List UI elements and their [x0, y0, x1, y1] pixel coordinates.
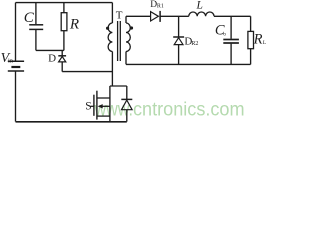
MOSFET body arrow line [102, 105, 110, 107]
wire: transformer primary top lead [111, 3, 113, 23]
MOSFET S channel bar [96, 91, 98, 120]
wire: DR2 top lead [178, 16, 180, 36]
svg-text:R: R [69, 16, 79, 32]
resistor RL (load) [248, 31, 254, 48]
inductor L [189, 12, 214, 16]
svg-text:L: L [196, 0, 203, 11]
svg-text:o: o [223, 31, 226, 37]
wire: clamp resistor top lead [63, 3, 65, 13]
svg-text:C: C [24, 10, 35, 26]
diode DR1 [151, 11, 161, 22]
svg-text:R: R [253, 31, 263, 47]
wire: battery bottom lead [15, 71, 17, 121]
dot primary polarity [106, 27, 109, 30]
svg-text:in: in [8, 57, 14, 64]
svg-text:R1: R1 [157, 3, 164, 9]
battery Vin [8, 61, 24, 71]
wire: output capacitor bottom lead [230, 44, 232, 65]
body diode of MOSFET [121, 99, 132, 109]
transformer T secondary winding [126, 23, 130, 52]
wire: clamp diode top lead [61, 50, 63, 55]
wire: clamp capacitor top lead [35, 3, 37, 25]
wire: bottom rail (primary) [16, 121, 127, 123]
wire: top rail (primary) [16, 2, 113, 4]
wire: secondary top rail DR1 to inductor [160, 15, 189, 17]
wire: secondary top rail to DR1 [126, 15, 151, 17]
wire: secondary bottom rail [126, 63, 251, 65]
diode D (clamp) [58, 56, 66, 62]
wire: output capacitor top lead [230, 16, 232, 39]
wire: clamp bottom wire [36, 49, 64, 51]
wire: secondary top rail after inductor [214, 15, 251, 17]
wire: body diode bottom lead [126, 110, 128, 122]
capacitor C (clamp) [29, 25, 43, 30]
capacitor Co [223, 40, 239, 44]
resistor R (clamp) [61, 13, 67, 31]
wire: transformer primary bottom lead [111, 52, 113, 87]
svg-text:cntronics.com: cntronics.com [133, 98, 245, 120]
svg-text:D: D [48, 53, 56, 65]
wire: clamp capacitor bottom lead [35, 30, 37, 50]
svg-text:L: L [263, 40, 266, 46]
svg-text:S: S [85, 100, 91, 112]
wire: battery top lead [15, 3, 17, 61]
wire: MOSFET drain/source vertical [109, 86, 111, 122]
wire: clamp resistor bottom lead [63, 31, 65, 51]
MOSFET gate stub [91, 105, 94, 107]
MOSFET drain horizontal [97, 97, 110, 99]
svg-text:R2: R2 [191, 41, 198, 47]
wire: drain node horizontal [110, 85, 127, 87]
wire: transformer secondary bottom lead [125, 52, 127, 65]
wire: load resistor top lead [250, 16, 252, 31]
dot secondary polarity [130, 26, 133, 29]
wire: transformer secondary top lead [125, 16, 127, 23]
wire: clamp diode bottom lead [61, 62, 63, 72]
MOSFET body arrowhead [98, 104, 103, 108]
diode DR2 [173, 37, 184, 45]
transformer core line 1 [117, 21, 119, 61]
transformer T primary winding [108, 23, 112, 52]
wire: load resistor bottom lead [250, 49, 252, 65]
svg-text:T: T [116, 9, 123, 21]
wire: DR2 bottom lead [178, 45, 180, 65]
transformer core line 2 [119, 21, 121, 61]
wire: body diode top lead [126, 86, 128, 99]
wire: clamp output wire to primary bottom [62, 71, 112, 73]
MOSFET S gate bar [93, 95, 95, 116]
MOSFET source horizontal [97, 115, 110, 117]
